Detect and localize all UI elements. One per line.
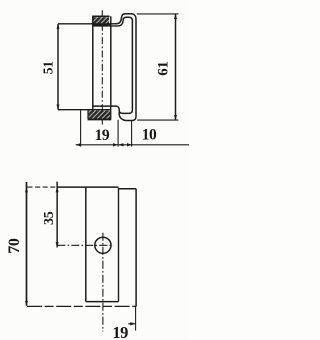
top shoulder line upper	[58, 23, 117, 25]
hole centerline horizontal (dash-dot)	[57, 244, 113, 246]
plate left edge	[85, 187, 87, 302]
dim 35 arrow down	[56, 242, 59, 247]
svg-text:19: 19	[95, 127, 110, 144]
dim 61 arrow down	[174, 115, 177, 120]
svg-text:10: 10	[142, 126, 157, 143]
dim 19 bottom: right extension	[135, 307, 137, 331]
dim arrow at 131.6 (pointing right)	[127, 143, 132, 146]
clip bottom hidden line / 70 bottom extension	[27, 305, 136, 307]
dim 70 arrow up	[25, 187, 28, 192]
dim 51 arrow down	[57, 105, 60, 110]
dim 70 arrow down	[25, 301, 28, 306]
dim 35 arrow up	[56, 187, 59, 192]
dim 51 line	[57, 24, 59, 110]
top tab hatch fill	[94, 17, 110, 23]
dim arrow at 119 (pointing left)	[118, 143, 123, 146]
dim 61 bottom extension line	[137, 119, 178, 121]
bottom tab right edge	[110, 106, 112, 119]
plate bottom edge	[86, 301, 119, 303]
dim 61 arrow up	[174, 14, 177, 19]
top edge of clip (right, slightly lower)	[119, 188, 137, 190]
hole circle	[95, 237, 111, 253]
dim 19 bottom: stub + arrow	[128, 323, 135, 325]
hook inner contour (from plate bottom corner around rail slot up to top)	[111, 17, 133, 113]
dim 61 top extension line	[137, 13, 179, 15]
plate right edge	[118, 188, 120, 302]
clip right edge	[135, 189, 137, 307]
dim 35 line	[56, 182, 58, 248]
dim 51 arrow up	[57, 24, 60, 29]
bottom tab bottom edge	[88, 118, 112, 120]
dim 70 line	[26, 182, 28, 306]
dim 19/10 shared extension line	[117, 120, 119, 147]
hook outer contour (top bend, right side, bottom foot)	[115, 14, 137, 121]
dim arrow at 75 (pointing left)	[76, 143, 81, 146]
top shoulder band (merged dark)	[93, 24, 111, 27]
dim 10 right extension line	[131, 121, 133, 147]
centerline (vertical dash-dot)	[101, 10, 103, 126]
plate right edge	[110, 16, 112, 106]
top shoulder line lower	[93, 25, 119, 27]
hole centerline vertical (dash-dot)	[102, 233, 104, 332]
dim 19/10 extension line left	[80, 110, 82, 147]
top edge of plate	[57, 186, 119, 188]
bottom tab hatch fill	[89, 111, 110, 119]
bottom shoulder line upper	[93, 105, 111, 107]
dim arrow at 118 (pointing right)	[113, 143, 118, 146]
svg-text:61: 61	[156, 61, 172, 75]
svg-text:19: 19	[112, 323, 128, 340]
svg-text:51: 51	[40, 61, 55, 74]
plate left edge	[92, 16, 94, 119]
top tab top edge	[92, 15, 109, 17]
dim 61 line	[175, 14, 177, 120]
bottom shoulder line lower / 51 bottom extension	[58, 109, 111, 111]
svg-text:35: 35	[42, 211, 57, 225]
dim 19/10 dimension line	[76, 144, 189, 146]
svg-text:70: 70	[6, 238, 23, 254]
bottom tab left edge	[87, 110, 89, 119]
dim 70 top dashed extension	[28, 186, 58, 188]
